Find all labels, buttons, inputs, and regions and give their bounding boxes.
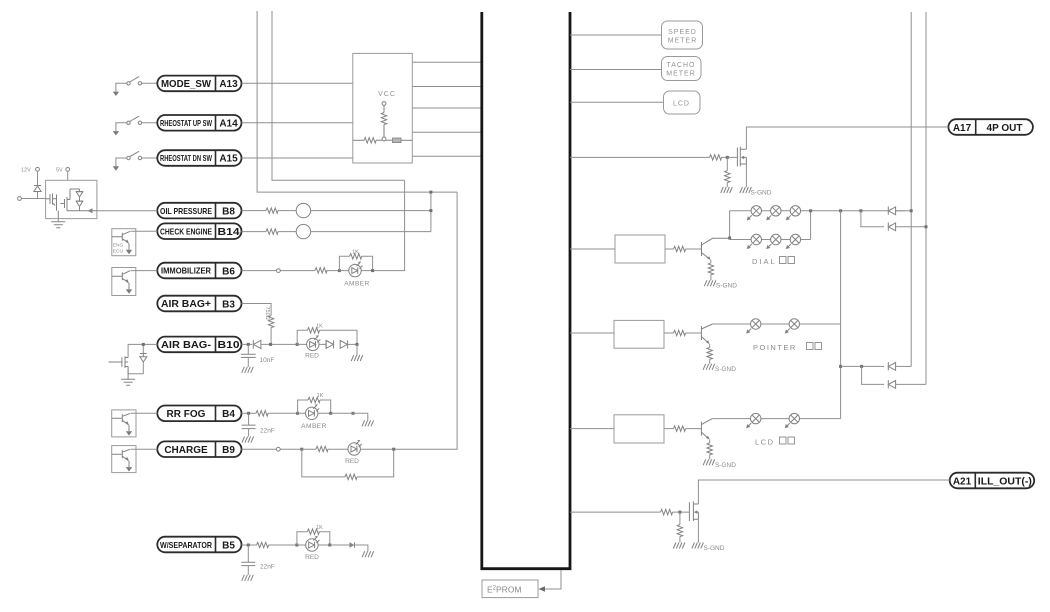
MOSFET Q6 (air bag sense) (109, 343, 158, 385)
wire AIR BAG- row (242, 343, 298, 345)
rail V1 (910, 12, 912, 366)
wire CHECK ENGINE row (242, 231, 431, 233)
svg-text:A15: A15 (219, 154, 238, 165)
wire AIR BAG+ row (242, 304, 272, 316)
svg-text:S-GND: S-GND (716, 283, 737, 290)
connector pill RHEOSTAT UP SW A14 (157, 115, 241, 131)
svg-text:CHECK ENGINE: CHECK ENGINE (160, 226, 212, 236)
pulldown resistor q8 (673, 512, 685, 548)
wire cpu to E2PROM with arrow (539, 570, 562, 592)
wire OIL PRESSURE row (242, 210, 431, 212)
svg-text:AIR BAG-: AIR BAG- (161, 340, 211, 351)
diode D-abg input (253, 340, 261, 349)
vertical lamp bus (840, 211, 842, 419)
svg-text:B9: B9 (222, 445, 235, 456)
resistor R-fog (256, 411, 268, 416)
node q7 gate (726, 156, 729, 159)
wire IMMOBILIZER row (242, 270, 340, 272)
diode D12 under 12V (34, 171, 41, 199)
svg-text:B3: B3 (222, 299, 235, 310)
microcontroller U1 block (482, 12, 570, 569)
SECTION: middle (241, 11, 481, 581)
node 5V (56, 168, 70, 174)
connector pill A21 ILL_OUT(-) (950, 473, 1034, 489)
wire RR FOG row (242, 412, 298, 414)
connector pill CHECK ENGINE B14 (157, 223, 241, 239)
lamp oil pressure (296, 203, 310, 217)
resistor R-oil (266, 208, 278, 213)
svg-text:1K: 1K (316, 525, 323, 531)
bus vertical net2 (272, 11, 405, 180)
SECTION: right (570, 12, 1034, 552)
bus vertical net1 (257, 11, 457, 192)
node ABG- junction (269, 343, 272, 346)
switch SW2 (RHEOSTAT UP) (113, 116, 157, 135)
svg-text:RED: RED (305, 554, 319, 561)
SECTION: cpu bar (482, 12, 570, 598)
diode D-r1 (888, 207, 912, 215)
connector pill RR FOG B4 (157, 406, 241, 422)
wire CHARGE row (242, 448, 302, 450)
wire input to regulator (21, 198, 45, 200)
svg-text:750Ω: 750Ω (264, 307, 270, 320)
box LCD (664, 91, 701, 114)
svg-text:AMBER: AMBER (301, 423, 327, 430)
wire fog to ground (331, 412, 374, 427)
svg-text:CHARGE: CHARGE (164, 445, 208, 456)
VCC pullup circuit (353, 102, 413, 143)
SECTION: regulator (18, 167, 158, 472)
svg-text:22nF: 22nF (260, 428, 275, 435)
E2PROM box (482, 580, 538, 598)
node RR FOG (247, 412, 250, 415)
wire VCC box pin stubs to CPU (412, 62, 481, 156)
svg-text:S-GND: S-GND (751, 190, 772, 197)
opto box Q9 (rr fog) (112, 410, 136, 437)
svg-text:OIL PRESSURE: OIL PRESSURE (160, 206, 212, 216)
switch SW1 (MODE) (113, 77, 157, 96)
terminal on charge wire (276, 447, 280, 451)
svg-text:5V: 5V (56, 168, 63, 174)
MOSFET Q7 (737, 147, 746, 167)
resistor R-wsep (257, 542, 269, 547)
svg-text:B6: B6 (222, 266, 235, 277)
wire cpu to speed meter (570, 34, 662, 36)
svg-text:1K: 1K (352, 250, 359, 256)
resistor R-check (266, 229, 278, 234)
svg-text:METER: METER (668, 38, 698, 45)
opto box ENG ECU (112, 229, 136, 256)
label POINTER (753, 343, 822, 353)
node joins on net1 branch (429, 191, 432, 232)
rail V2 (925, 12, 927, 384)
lamp row DIAL2 (730, 234, 811, 249)
resistor R-q8gate (661, 509, 673, 514)
wire A17 pill to mosfet drain (746, 127, 948, 149)
lamp check engine (296, 224, 310, 238)
svg-text:AMBER: AMBER (344, 281, 370, 288)
svg-text:4P OUT: 4P OUT (987, 123, 1023, 134)
svg-text:S-GND: S-GND (704, 545, 725, 552)
mosfet q8 source to ground (692, 519, 725, 552)
regulator internals (46, 189, 97, 219)
svg-text:LCD: LCD (673, 101, 690, 108)
wire Q9 to RR FOG pill (131, 412, 157, 414)
transistor Q2 (pointer) (701, 324, 736, 373)
LED red air bag with 1K bypass (296, 324, 357, 360)
resistor R-q7gate (710, 155, 722, 160)
driver block DIAL (570, 235, 702, 263)
svg-text:10nF: 10nF (260, 357, 275, 364)
svg-text:B14: B14 (218, 227, 241, 238)
svg-text:1K: 1K (317, 393, 324, 399)
svg-text:S-GND: S-GND (715, 462, 736, 469)
terminal on immobilizer wire (277, 269, 281, 273)
connector pill RHEOSTAT DN SW A15 (157, 150, 241, 166)
label DIAL (752, 257, 795, 267)
svg-text:LCD: LCD (755, 438, 775, 447)
diode D-abg3 (340, 340, 357, 348)
svg-text:1K: 1K (316, 324, 323, 330)
diode D-r4 (888, 380, 926, 388)
branch to diodes 3/4 (839, 365, 884, 385)
node q8 gate (678, 511, 681, 514)
input terminal (18, 197, 22, 201)
wire Q10 to CHARGE pill (131, 448, 157, 450)
label LCD (755, 437, 795, 447)
pulldown resistor q7 (721, 157, 733, 193)
svg-text:SPEED: SPEED (668, 29, 697, 36)
connector pill OIL PRESSURE B8 (157, 203, 241, 219)
connector pill W/SEPARATOR B5 (157, 537, 241, 553)
driver block LCD (570, 415, 701, 443)
connector pill AIR BAG- B10 (157, 337, 241, 353)
DIAL row verticals (728, 209, 812, 239)
connector pill IMMOBILIZER B6 (157, 263, 241, 279)
wire cpu to lcd (570, 101, 664, 103)
opto box Q10 (charge) (112, 446, 136, 473)
wire cpu to mosfet Q7 gate (570, 156, 737, 158)
capacitor 22nF fog (242, 413, 275, 442)
svg-text:ILL_OUT(-): ILL_OUT(-) (978, 477, 1032, 488)
diode D-r3 (888, 362, 911, 370)
svg-text:MODE_SW: MODE_SW (161, 79, 212, 90)
VCC box U3 (353, 53, 413, 163)
MOSFET Q8 (689, 501, 698, 521)
svg-text:RED: RED (305, 353, 319, 360)
capacitor 22nF wsep (241, 545, 275, 581)
LED amber immobilizer with 1K bypass (338, 250, 374, 288)
svg-text:ECU: ECU (113, 249, 124, 255)
rail net2 down to immobilizer (373, 180, 405, 270)
regulator box U2 (46, 180, 97, 218)
svg-text:DIAL: DIAL (752, 257, 777, 266)
resistor R-chg (302, 446, 348, 451)
svg-text:B8: B8 (222, 206, 235, 217)
driver block POINTER (570, 320, 701, 348)
svg-text:METER: METER (666, 71, 696, 78)
opto box Q5 (immobilizer) (112, 268, 136, 296)
box TACHO METER (662, 57, 702, 81)
transistor Q1 (dial) (702, 238, 738, 289)
diode small wsep (330, 542, 374, 557)
wire 5V to regulator (67, 171, 69, 180)
dial diode branch nodes (839, 209, 884, 227)
diode D-abg2 (326, 340, 334, 348)
wire W/SEPARATOR row (242, 544, 297, 546)
svg-text:A21: A21 (953, 477, 972, 488)
connector pill MODE_SW A13 (157, 76, 241, 92)
bypass resistor loop charge (302, 449, 394, 479)
LED red charge (345, 440, 395, 465)
resistor 750ohm (264, 307, 274, 345)
svg-text:A17: A17 (953, 123, 972, 134)
svg-text:AIR BAG+: AIR BAG+ (161, 299, 211, 310)
box SPEED METER (662, 21, 703, 49)
svg-text:VCC: VCC (378, 91, 396, 98)
node 12V (21, 167, 39, 173)
mosfet q7 source to ground (740, 164, 772, 197)
wire A14 row pill to VCC box (242, 122, 353, 124)
lamp row LCD (712, 413, 840, 428)
capacitor 10nF (241, 344, 275, 372)
connector pill AIR BAG+ B3 (157, 296, 241, 312)
lamp row DIAL1 (730, 206, 905, 221)
wire A21 pill to mosfet Q8 drain (698, 480, 949, 504)
LED red wsep with 1K bypass (295, 525, 331, 561)
svg-text:TACHO: TACHO (667, 62, 696, 69)
svg-text:W/SEPARATOR: W/SEPARATOR (160, 540, 212, 550)
svg-text:RED: RED (345, 458, 359, 465)
wire cpu to mosfet Q8 gate (570, 511, 689, 513)
wire A13 row pill to VCC box (242, 82, 353, 84)
wire A15 row pill to VCC box (242, 157, 353, 159)
SECTION: left switches (113, 77, 157, 171)
node wsep (247, 544, 250, 547)
svg-text:RHEOSTAT UP SW: RHEOSTAT UP SW (160, 118, 213, 128)
wire cpu to tacho meter (570, 69, 662, 71)
ground below regulator (51, 219, 65, 228)
svg-text:POINTER: POINTER (753, 343, 797, 352)
svg-text:B4: B4 (222, 409, 235, 420)
node ABG- pill (247, 343, 250, 346)
wire Q5 to IMMOBILIZER pill (131, 270, 157, 272)
SECTION: left pills (157, 76, 241, 553)
svg-text:22nF: 22nF (260, 564, 275, 571)
svg-text:ENG: ENG (113, 243, 124, 249)
svg-text:RR FOG: RR FOG (167, 409, 206, 420)
svg-text:RHEOSTAT DN SW: RHEOSTAT DN SW (160, 153, 213, 163)
lamp row POINTER (713, 319, 841, 334)
wire regulator output to OIL PRESSURE pill (97, 210, 157, 212)
svg-text:E2PROM: E2PROM (487, 585, 522, 595)
svg-text:A14: A14 (219, 118, 238, 129)
svg-text:S-GND: S-GND (715, 366, 736, 373)
transistor Q3 (lcd) (701, 419, 736, 469)
svg-text:IMMOBILIZER: IMMOBILIZER (161, 266, 211, 276)
svg-text:B5: B5 (222, 540, 235, 551)
svg-text:12V: 12V (21, 168, 31, 174)
svg-text:B10: B10 (218, 340, 241, 351)
LED amber rr fog with 1K bypass (296, 393, 332, 430)
connector pill CHARGE B9 (157, 441, 241, 457)
wire ENG ECU to CHECK ENGINE pill (131, 230, 157, 232)
connector pill A17 4P OUT (948, 119, 1033, 135)
rail net1 down to charge (394, 192, 457, 449)
node ABG- right / ground (351, 343, 363, 361)
switch SW3 (RHEOSTAT DN) (113, 151, 157, 170)
diode D-r2 (888, 223, 927, 231)
node charge left (300, 448, 303, 451)
svg-text:A13: A13 (219, 79, 238, 90)
resistor R-immo (315, 268, 327, 273)
